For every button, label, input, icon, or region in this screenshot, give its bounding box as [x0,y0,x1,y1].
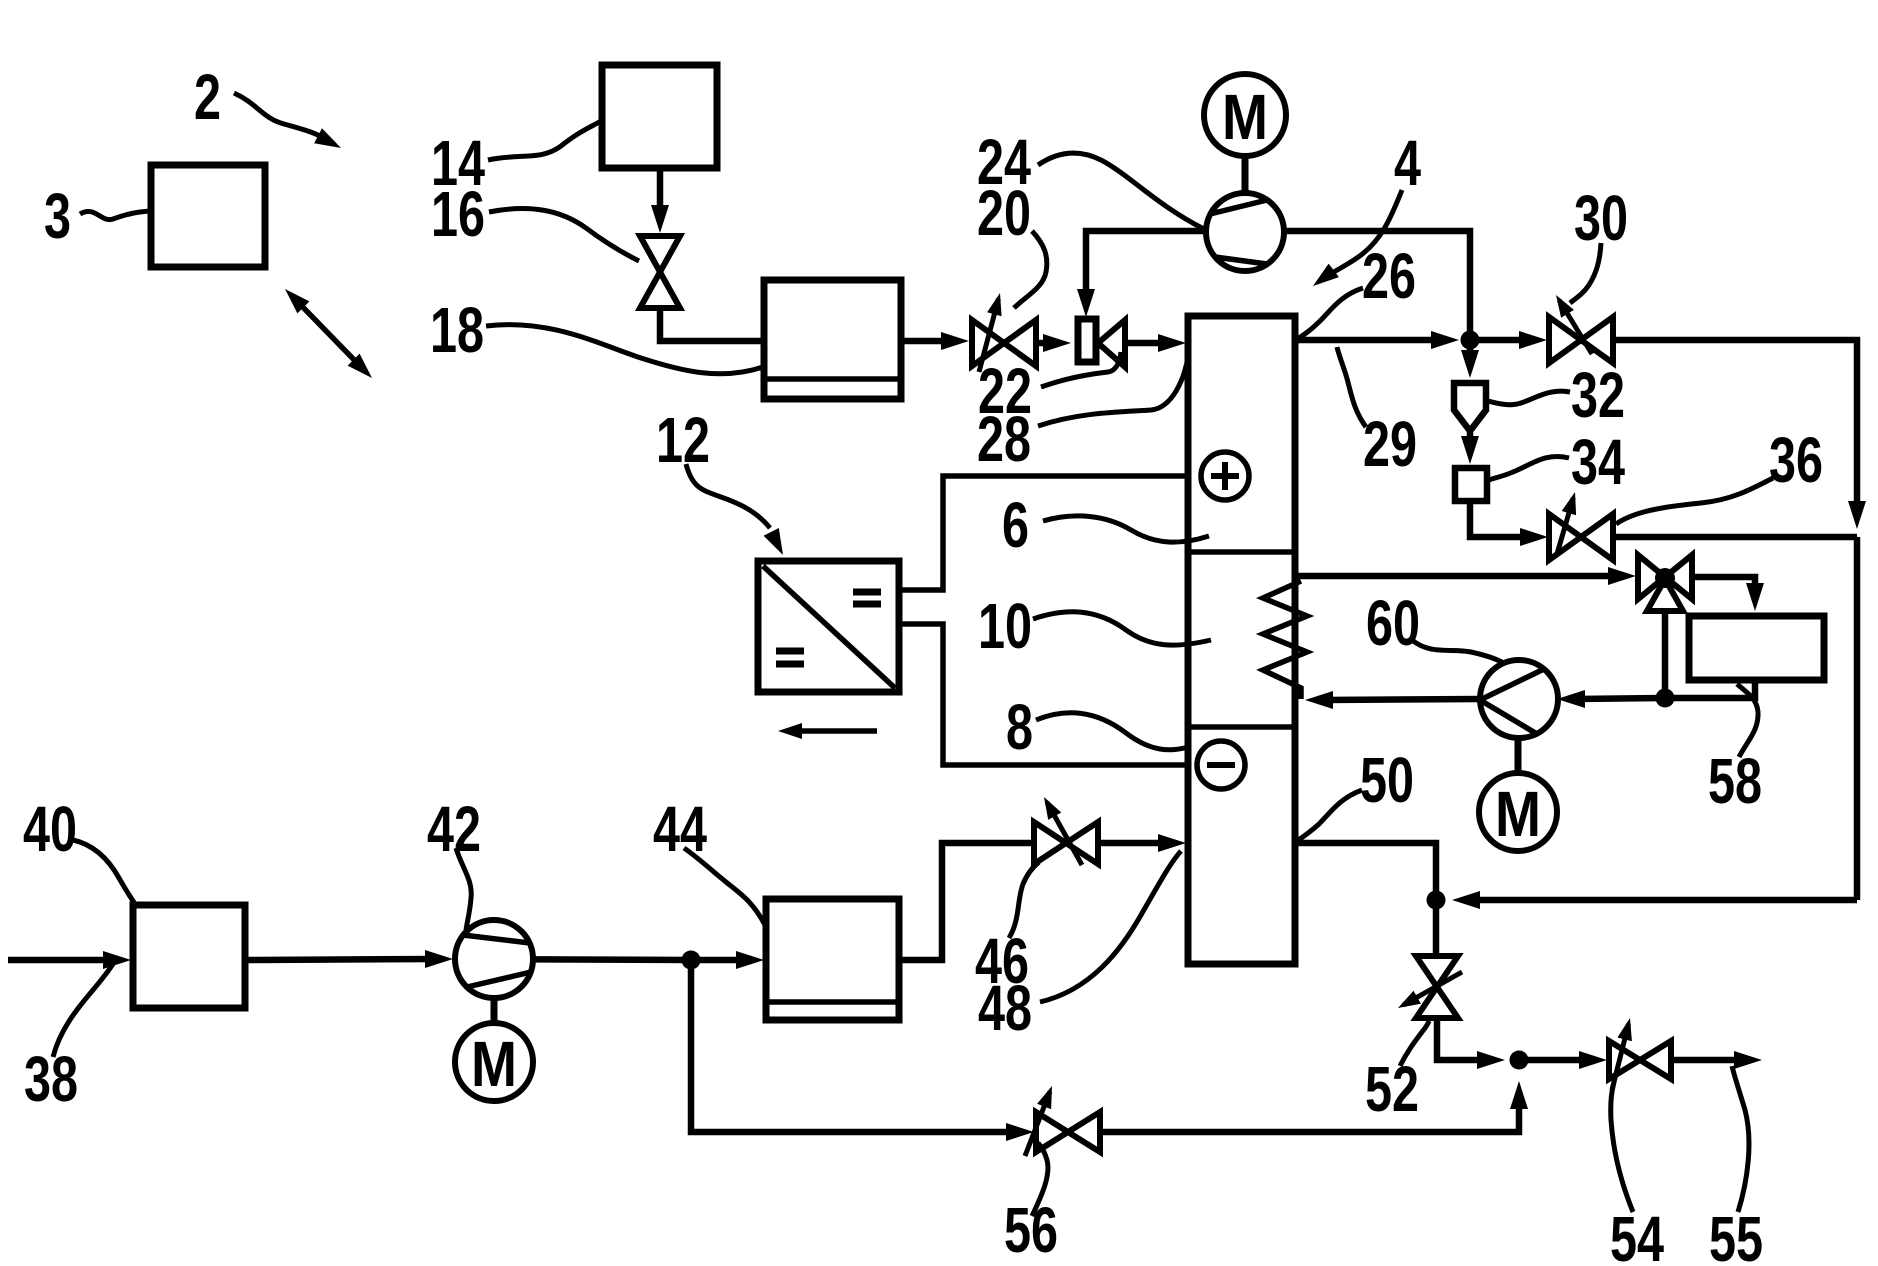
motor M of pump 60 [1479,738,1557,851]
leader of 54 [1611,1082,1633,1212]
svg-text:M: M [471,1028,517,1100]
wire to intercooler 44 [691,951,764,969]
label 12 [656,404,710,476]
wire air inlet [8,951,131,969]
svg-text:58: 58 [1708,745,1762,817]
wire radiator bypass [1662,611,1669,698]
label 34 [1571,426,1625,498]
label 55 [1709,1203,1763,1266]
leader of 46 [1009,862,1039,938]
svg-text:12: 12 [656,404,710,476]
stack divider upper [1188,549,1295,555]
label 32 [1571,359,1625,431]
svg-text:52: 52 [1365,1053,1419,1125]
svg-text:56: 56 [1004,1194,1058,1266]
wire 34 to valve 36 [1470,501,1548,546]
leader of 56 [1032,1143,1048,1216]
svg-text:26: 26 [1362,240,1416,312]
svg-text:38: 38 [24,1043,78,1115]
water separator 32 [1454,383,1486,431]
label 4 [1394,127,1421,199]
wire through compressor 42 [455,959,691,960]
svg-text:36: 36 [1769,424,1823,496]
leader of 14 [488,121,601,160]
svg-text:3: 3 [44,180,71,252]
wire separator to drain valve 34 [1461,431,1479,464]
label 58 [1708,745,1762,817]
svg-text:60: 60 [1366,587,1420,659]
node drain junction [1427,891,1446,910]
label 30 [1574,182,1628,254]
wire anode recirculation loop [1086,231,1470,340]
svg-text:10: 10 [978,590,1032,662]
wire from valve 16 to humidifier 18 [660,305,762,341]
label 10 [978,590,1032,662]
leader of 60 [1412,640,1505,664]
wire valve 56 to exhaust junction [1100,1100,1519,1132]
wire radiator outlet [1665,680,1755,698]
svg-text:20: 20 [977,177,1031,249]
double arrow wireless link [285,289,372,378]
leader of 36 [1616,478,1773,524]
wire valve 52 to exhaust line [1437,1018,1505,1069]
label 54 [1610,1203,1664,1266]
svg-text:40: 40 [23,793,77,865]
motor M of pump 24 [1204,74,1286,194]
adjust arrow of valve 36 [1557,492,1576,554]
adjust arrow of valve 52 [1398,972,1462,1008]
svg-text:18: 18 [430,294,484,366]
valve 52 [1416,956,1458,1018]
wire filter 40 to compressor 42 [245,950,453,968]
label 22 [978,355,1032,427]
wire negative terminal [899,624,1198,765]
label 20 [977,177,1031,249]
leader of 50 [1297,790,1362,841]
coolant pump 60 [1480,660,1558,738]
wire stack anode outlet [1295,331,1459,349]
air filter 40 [133,905,245,1008]
wire valve 36 to right edge [1613,534,1857,541]
injector 28 body [1078,319,1096,362]
wire cathode bypass [691,960,1034,1141]
svg-text:34: 34 [1571,426,1625,498]
valve 20/22 [972,320,1036,366]
wire junction to valve 30 [1470,331,1547,349]
leader of 3 [80,211,150,220]
label 44 [653,793,707,865]
wire valve 20 to injector 28 [1036,334,1071,352]
svg-text:54: 54 [1610,1203,1664,1266]
label 28 [977,403,1031,475]
leader of 10 [1033,612,1211,645]
leader of 26 [1299,288,1363,338]
node coolant junction [1656,689,1675,708]
adjust arrow of valve 20 [979,293,1002,372]
label 6 [1002,489,1029,561]
svg-text:4: 4 [1394,127,1421,199]
svg-text:42: 42 [427,793,481,865]
svg-text:6: 6 [1002,489,1029,561]
hydrogen tank 14 [602,65,717,168]
svg-text:2: 2 [194,61,221,133]
valve 30 [1549,317,1613,363]
motor M of compressor 42 [455,998,533,1101]
leader of 38 [53,964,113,1057]
humidifier 18 [764,280,901,399]
valve 36 [1549,514,1613,560]
wire coolant supply from stack [1295,567,1636,585]
wire junction to valve 52 [1433,900,1440,956]
compressor 42 [455,920,533,998]
svg-text:48: 48 [978,972,1032,1044]
leader of 55 [1732,1066,1749,1212]
label 2 [194,61,221,133]
valve 46 [1034,822,1098,864]
wire positive terminal [899,476,1202,590]
leader of 18 [486,325,763,374]
leader of 4 [1313,190,1402,286]
radiator 58 [1689,616,1824,680]
intercooler 44 [766,899,899,1020]
wire right vertical to drain line [1854,537,1861,900]
wire from tank 14 to valve 16 [651,168,669,233]
leader of 2 [234,93,341,148]
leader of 58 [1737,684,1758,757]
leader of 8 [1036,713,1188,750]
adjust arrow of valve 30 [1556,295,1592,354]
node after compressor 42 [682,951,701,970]
svg-text:M: M [1495,778,1541,850]
current direction arrow [778,723,877,739]
leader of 12 [686,464,783,555]
label 50 [1360,744,1414,816]
node exhaust junction [1510,1051,1529,1070]
label 8 [1006,691,1033,763]
valve 54 [1609,1041,1671,1079]
leader of 34 [1489,456,1569,480]
drain valve 34 [1455,468,1487,501]
leader of 30 [1570,243,1601,303]
leader of 44 [684,848,765,925]
leader of 32 [1488,391,1570,405]
label 52 [1365,1053,1419,1125]
label 3 [44,180,71,252]
arrow up into exhaust junction [1510,1081,1528,1109]
label 38 [24,1043,78,1115]
wire drain line into junction [1452,891,1857,909]
leader of 52 [1400,1021,1429,1066]
wire junction to valve 54 [1519,1051,1607,1069]
svg-text:32: 32 [1571,359,1625,431]
label 36 [1769,424,1823,496]
adjust arrow of valve 56 [1025,1086,1052,1156]
svg-text:44: 44 [653,793,707,865]
wire junction to pump 60 [1557,690,1665,708]
label 14 [431,127,485,199]
node at anode outlet junction [1461,331,1480,350]
svg-text:55: 55 [1709,1203,1763,1266]
wire stack cathode outlet [1295,843,1436,900]
wire valve to radiator 58 [1693,577,1764,611]
label 56 [1004,1194,1058,1266]
wire valve 46 to stack cathode inlet [1098,834,1186,852]
leader of 24 [1038,153,1204,229]
wire valve 30 to right edge [1613,340,1857,508]
leader of 20 [1014,231,1047,308]
wire exhaust outlet 55 [1672,1051,1762,1069]
wire humidifier 18 to valve 20 [901,332,969,350]
label 29 [1363,408,1417,480]
valve 16 [640,236,680,308]
wire junction down to separator [1461,340,1479,378]
svg-text:M: M [1222,81,1268,153]
wire 44 to valve 46 [899,843,1033,960]
label 26 [1362,240,1416,312]
label 42 [427,793,481,865]
stack divider lower [1188,724,1295,730]
leader of 40 [73,840,135,904]
wire injector to stack anode inlet [1125,334,1186,352]
control unit 3 [151,165,265,267]
leader of 16 [489,209,639,261]
DC/DC converter 12 [758,561,899,692]
leader of 48 [1040,851,1181,1002]
svg-text:8: 8 [1006,691,1033,763]
label 60 [1366,587,1420,659]
label 40 [23,793,77,865]
leader of 28 [1038,357,1188,426]
label 46 [975,925,1029,997]
label 48 [978,972,1032,1044]
positive terminal circle [1201,452,1249,500]
label 18 [430,294,484,366]
arrow down on right vertical [1848,501,1866,529]
recirculation pump 24 [1206,193,1284,271]
label 16 [431,178,485,250]
leader of 42 [456,848,471,930]
injector 28 nozzle [1098,320,1125,367]
leader of 6 [1043,516,1209,542]
arrow into injector top [1077,289,1095,317]
svg-text:16: 16 [431,178,485,250]
leader of 29 [1337,347,1366,427]
stack cooling coil [1263,581,1307,699]
valve 56 [1036,1112,1100,1152]
fuel cell stack 4 [1188,316,1295,964]
adjust arrow of valve 54 [1612,1018,1632,1090]
svg-text:50: 50 [1360,744,1414,816]
wire pump 60 to stack coil [1305,691,1480,709]
leader of 22 [1041,352,1121,387]
svg-text:28: 28 [977,403,1031,475]
adjust arrow of valve 46 [1044,797,1082,865]
negative terminal circle [1197,741,1245,789]
three-way valve coolant [1638,555,1692,611]
label 24 [977,126,1031,198]
svg-text:29: 29 [1363,408,1417,480]
